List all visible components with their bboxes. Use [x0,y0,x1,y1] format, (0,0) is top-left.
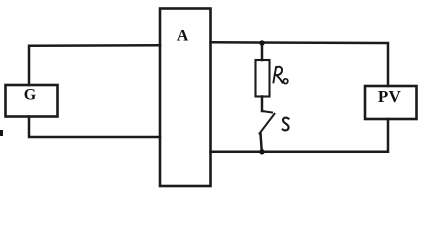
svg-text:PV: PV [378,87,402,106]
node junction top [259,40,264,45]
wire node to resistor top [261,43,264,60]
resistor R0 body [256,60,270,97]
node junction bottom [259,149,264,154]
wire switch to bottom rail [261,134,262,152]
box PV [365,86,417,119]
switch S [262,111,272,113]
wire bottom-right rail: A right to PV bottom [211,119,389,152]
label S (switch) [283,118,289,131]
svg-text:A: A [177,28,189,45]
box A (amplifier) [160,9,211,187]
wire bottom-left rail: G bottom to A left [29,117,160,138]
svg-text:G: G [24,87,37,104]
wire top-left rail: G top to A left [29,45,160,85]
wire resistor bottom to switch [261,97,264,112]
scan artifact left edge [0,130,3,136]
wire top-right rail: A right to PV top [211,42,389,86]
box G (generator) [6,85,58,117]
label R0 (resistor value) [273,67,287,84]
